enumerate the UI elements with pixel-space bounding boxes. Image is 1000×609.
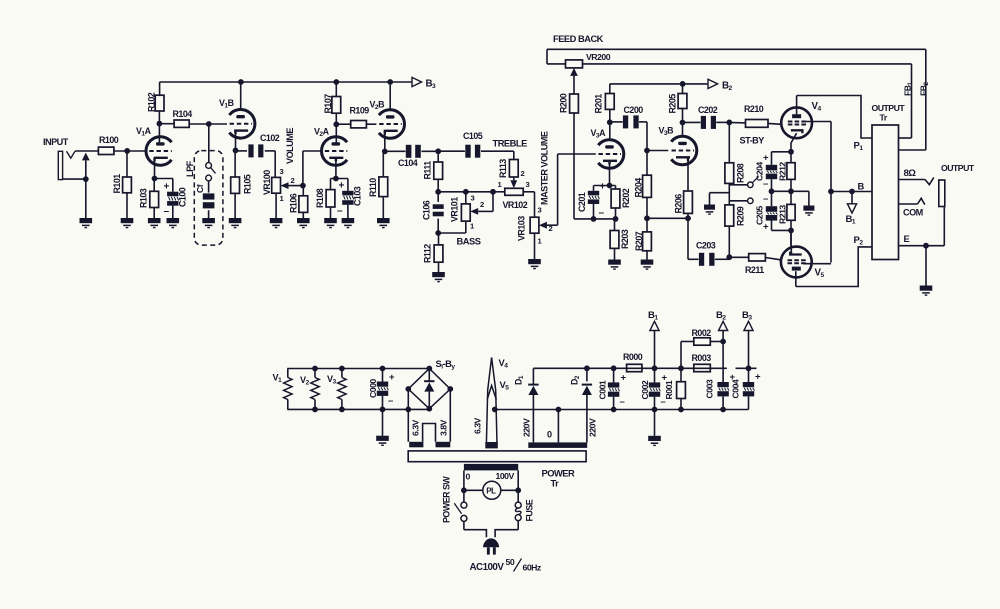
svg-text:C103: C103	[353, 186, 363, 206]
svg-text:2: 2	[291, 176, 295, 185]
svg-text:–: –	[763, 179, 768, 190]
svg-text:INPUT: INPUT	[43, 137, 69, 147]
svg-text:R002: R002	[692, 328, 712, 338]
svg-text:220V: 220V	[588, 418, 598, 437]
svg-text:FEED BACK: FEED BACK	[553, 34, 604, 44]
svg-text:C200: C200	[624, 105, 644, 115]
svg-text:R200: R200	[559, 93, 569, 113]
svg-text:+: +	[164, 182, 170, 193]
svg-text:C201: C201	[577, 192, 587, 212]
svg-text:–: –	[763, 194, 768, 205]
svg-text:C100: C100	[178, 187, 188, 207]
svg-text:AC100V: AC100V	[470, 562, 505, 573]
svg-text:–: –	[599, 208, 605, 219]
svg-text:R105: R105	[242, 174, 252, 194]
svg-text:2: 2	[521, 169, 525, 178]
svg-text:6.3V: 6.3V	[410, 419, 420, 436]
svg-text:C105: C105	[463, 131, 483, 141]
svg-text:V3A: V3A	[591, 128, 607, 140]
svg-text:R203: R203	[620, 229, 630, 249]
svg-text:R107: R107	[323, 94, 333, 114]
svg-text:–: –	[388, 396, 393, 407]
svg-text:50: 50	[506, 557, 515, 567]
svg-text:B: B	[858, 182, 865, 192]
svg-text:BASS: BASS	[457, 237, 481, 247]
svg-text:R108: R108	[315, 188, 325, 208]
svg-text:POWER SW: POWER SW	[442, 476, 452, 523]
svg-text:VOLUME: VOLUME	[285, 128, 295, 164]
svg-text:R208: R208	[736, 163, 746, 183]
svg-text:0: 0	[547, 430, 552, 440]
svg-text:R110: R110	[368, 178, 378, 197]
svg-text:–: –	[337, 206, 343, 217]
svg-text:R103: R103	[139, 188, 149, 208]
svg-text:R100: R100	[99, 135, 119, 145]
svg-text:–: –	[164, 206, 170, 217]
svg-text:R109: R109	[350, 106, 370, 116]
svg-text:R111: R111	[423, 161, 433, 180]
svg-text:Tr: Tr	[551, 479, 560, 489]
svg-text:R205: R205	[668, 94, 678, 114]
svg-text:R207: R207	[634, 231, 644, 251]
svg-text:C002: C002	[640, 380, 650, 399]
svg-text:100V: 100V	[496, 471, 515, 481]
svg-text:6.3V: 6.3V	[473, 417, 483, 434]
svg-text:FUSE: FUSE	[525, 499, 535, 521]
svg-text:TREBLE: TREBLE	[493, 139, 528, 149]
svg-text:LPF: LPF	[185, 160, 195, 177]
svg-text:C203: C203	[696, 241, 716, 251]
svg-text:R212: R212	[777, 162, 787, 181]
svg-text:+: +	[339, 181, 345, 192]
svg-text:Tr: Tr	[880, 113, 888, 123]
svg-text:POWER: POWER	[542, 469, 576, 479]
svg-text:C202: C202	[698, 105, 718, 115]
svg-text:VR200: VR200	[586, 52, 611, 62]
svg-text:–: –	[620, 397, 625, 408]
svg-text:+: +	[600, 182, 606, 193]
svg-text:R000: R000	[623, 352, 643, 362]
svg-text:R106: R106	[289, 193, 299, 213]
svg-text:3: 3	[471, 194, 475, 203]
svg-text:Cf: Cf	[195, 184, 205, 193]
svg-text:C104: C104	[398, 158, 418, 168]
svg-text:VR102: VR102	[503, 200, 528, 210]
svg-text:VR101: VR101	[450, 197, 460, 222]
svg-text:60Hz: 60Hz	[523, 563, 542, 573]
svg-text:COM: COM	[903, 208, 923, 218]
svg-text:VR100: VR100	[262, 170, 272, 195]
svg-text:R213: R213	[777, 205, 787, 224]
svg-text:OUTPUT: OUTPUT	[872, 103, 906, 113]
svg-text:R113: R113	[498, 159, 508, 178]
svg-text:R201: R201	[594, 94, 604, 114]
svg-text:PL: PL	[486, 487, 496, 496]
svg-text:C000: C000	[368, 379, 378, 398]
svg-text:C102: C102	[260, 133, 280, 143]
svg-text:3: 3	[280, 167, 284, 176]
svg-text:2: 2	[549, 224, 553, 233]
svg-text:E: E	[904, 234, 910, 244]
svg-text:VR103: VR103	[517, 216, 527, 241]
svg-text:V2A: V2A	[314, 127, 330, 139]
svg-text:3: 3	[538, 206, 542, 215]
svg-text:R001: R001	[664, 380, 674, 399]
svg-text:ST-BY: ST-BY	[740, 136, 765, 146]
svg-text:C003: C003	[705, 379, 715, 398]
svg-text:3: 3	[526, 180, 530, 189]
svg-text:C004: C004	[731, 379, 741, 398]
svg-text:MASTER VOLUME: MASTER VOLUME	[540, 131, 550, 205]
svg-text:R101: R101	[112, 174, 122, 194]
svg-text:R202: R202	[621, 188, 631, 208]
svg-text:R112: R112	[423, 244, 433, 263]
svg-text:R209: R209	[736, 206, 746, 226]
svg-text:3.8V: 3.8V	[438, 419, 448, 436]
svg-text:OUTPUT: OUTPUT	[941, 163, 975, 173]
svg-text:C001: C001	[598, 380, 608, 399]
svg-text:2: 2	[480, 200, 484, 209]
svg-text:V1A: V1A	[136, 126, 152, 138]
svg-text:8Ω: 8Ω	[904, 168, 917, 179]
svg-text:R211: R211	[745, 265, 764, 275]
svg-text:220V: 220V	[522, 418, 532, 437]
svg-text:0: 0	[466, 472, 471, 482]
svg-text:R102: R102	[147, 92, 157, 112]
svg-text:R204: R204	[634, 178, 644, 198]
svg-text:R210: R210	[744, 104, 764, 114]
svg-text:C106: C106	[422, 200, 432, 220]
svg-text:R206: R206	[673, 194, 683, 214]
svg-text:R003: R003	[692, 353, 712, 363]
svg-text:R104: R104	[173, 109, 193, 119]
